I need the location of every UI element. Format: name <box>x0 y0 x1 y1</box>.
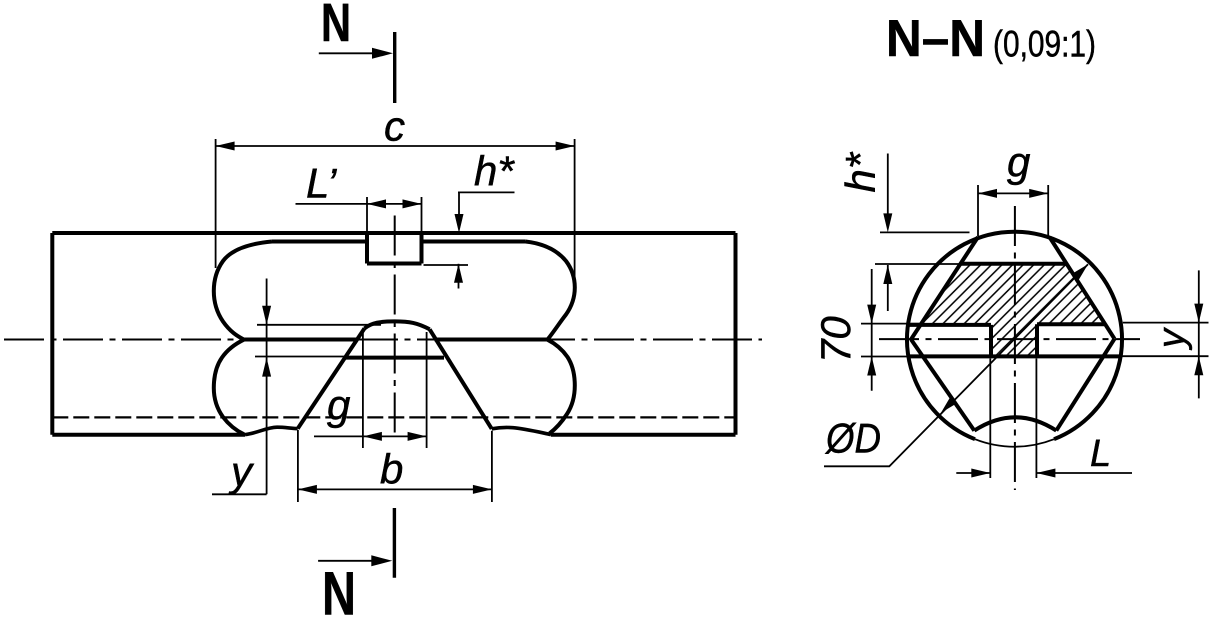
dimension 70 <box>861 269 920 391</box>
svg-text:(0,09:1): (0,09:1) <box>993 23 1096 64</box>
dimension h* (section) <box>875 154 970 312</box>
svg-text:70: 70 <box>812 316 859 363</box>
section mark N top <box>393 32 396 103</box>
hatch fill <box>921 264 1106 357</box>
hexagon upper-left edge <box>911 237 978 339</box>
break wave right <box>492 427 551 434</box>
flat edge line <box>345 356 444 360</box>
center bump arc <box>365 321 430 329</box>
svg-text:N: N <box>322 560 356 619</box>
circle bottom thin part <box>975 439 1054 447</box>
dimension L (section) <box>956 359 1132 479</box>
svg-text:b: b <box>380 446 403 493</box>
hexagon lower-left edge <box>911 339 974 430</box>
chord / flat top <box>961 262 1066 266</box>
left slant of bottom notch <box>298 328 365 428</box>
svg-text:ØD: ØD <box>824 415 881 462</box>
svg-text:c: c <box>384 103 405 150</box>
upper-right lobe curve <box>526 242 575 340</box>
vertical center line (section plane) <box>394 216 396 438</box>
svg-text:y: y <box>1151 327 1193 351</box>
svg-text:g: g <box>1007 138 1030 185</box>
lower-left lobe curve <box>214 340 244 435</box>
bottom dome arc <box>974 417 1056 430</box>
svg-text:h*: h* <box>474 148 515 195</box>
leader OD <box>824 264 1088 466</box>
upper-left lobe curve <box>214 242 272 340</box>
horizontal center line <box>4 339 762 341</box>
hidden dashed line <box>52 416 735 418</box>
hexagon lower-right edge <box>1056 339 1114 431</box>
dimension g (left view) <box>314 330 427 448</box>
dimension y (left view) <box>212 279 381 495</box>
step bottom chord <box>909 354 1120 358</box>
upper lobe flat top <box>272 240 526 244</box>
dimension g (section) <box>978 185 1048 236</box>
dimension h* (left view) <box>424 192 515 288</box>
lobe meeting line on center <box>244 338 548 342</box>
section vertical center line <box>1014 206 1016 490</box>
top slot <box>367 233 422 264</box>
circle (shaft dia) thick part <box>907 232 1122 439</box>
break wave left <box>245 427 298 434</box>
dimension c <box>216 139 575 285</box>
right slant of bottom notch <box>430 329 492 429</box>
hexagon upper-right edge <box>1050 237 1115 339</box>
svg-text:y: y <box>228 448 255 495</box>
svg-text:N–N: N–N <box>886 10 985 68</box>
step top right <box>1037 322 1106 326</box>
lower-right lobe curve <box>548 340 575 434</box>
step top left <box>908 323 991 327</box>
dimension b <box>298 430 492 502</box>
svg-text:L’: L’ <box>306 160 337 207</box>
dimension L' <box>296 197 422 237</box>
shaft body outline <box>52 233 735 435</box>
dimension y (section) <box>1120 270 1208 398</box>
svg-text:h*: h* <box>837 151 884 192</box>
section mark N bottom <box>393 508 396 578</box>
svg-text:L: L <box>1090 433 1111 475</box>
notch sides <box>991 324 1037 356</box>
svg-text:g: g <box>327 382 350 429</box>
section horizontal center line <box>879 338 1140 340</box>
svg-text:N: N <box>321 0 351 53</box>
